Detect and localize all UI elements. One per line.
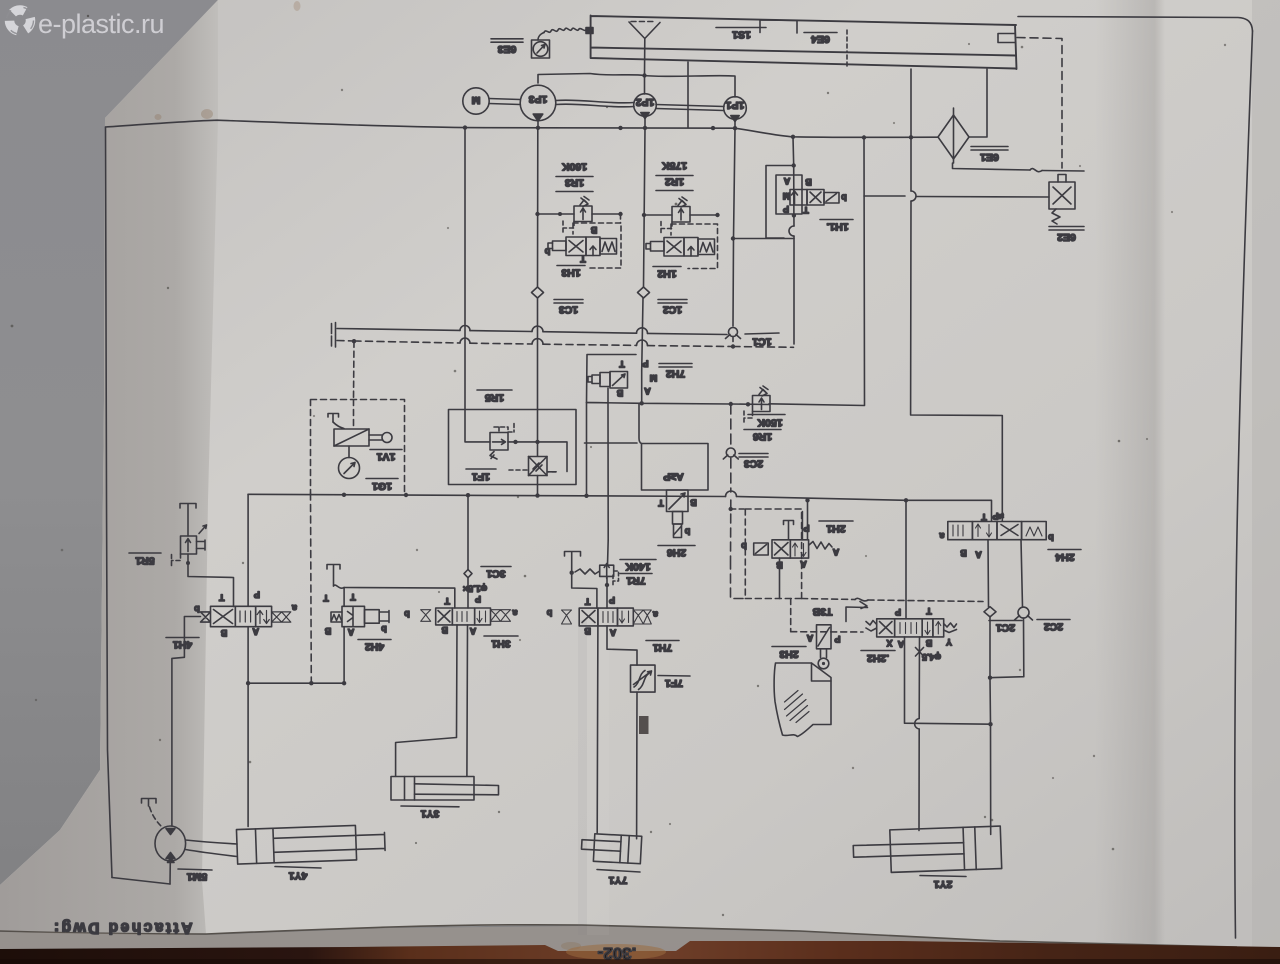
svg-text:b: b [546, 608, 552, 618]
svg-text:7F1: 7F1 [665, 677, 683, 689]
plug left end dashed line [332, 335, 336, 347]
end triangles right [272, 612, 291, 622]
relief valve 1R6 [744, 386, 770, 424]
node rail x468 [466, 493, 470, 497]
bypass loop [766, 166, 794, 239]
breather 6E4 box on tank [760, 20, 797, 33]
svg-text:175K: 175K [662, 160, 688, 172]
svg-text:2C3: 2C3 [744, 458, 763, 470]
label 2C1 [989, 621, 1022, 634]
subtle center-bottom crease [578, 620, 587, 935]
node x607/585 [605, 583, 609, 587]
svg-text:b: b [544, 247, 550, 257]
node x560 [558, 212, 562, 216]
check valve 1C2 [638, 287, 650, 298]
check 3C1 with orifice [463, 570, 487, 594]
label 4H2 [358, 640, 391, 653]
wire 4H1 left loop to 5M1 [172, 617, 201, 826]
wire 1R2 branch [644, 214, 718, 216]
wire 2H4 outputs down [988, 540, 1023, 607]
label 1C1 [745, 333, 779, 348]
svg-text:M: M [783, 191, 791, 201]
wire 3H1 B down and over to 3Y1 [396, 625, 457, 776]
label 7H2 [659, 364, 692, 380]
svg-text:A: A [832, 547, 839, 557]
label 3H1 [484, 636, 518, 650]
node rail x537 [535, 493, 539, 497]
heater coil 6E3 wire into tank [544, 28, 588, 32]
svg-text:B: B [441, 625, 448, 635]
node rail x713 [711, 126, 715, 130]
relief valve 1R3 [563, 197, 592, 235]
wire check junction down to 2Y1 [989, 678, 992, 835]
solenoid 1H1 [824, 193, 839, 204]
node y403 x731 [729, 402, 733, 406]
relief valve 1R2 [661, 197, 690, 235]
wire 1R3 branch [538, 213, 621, 215]
node x733 on dashed [731, 344, 735, 348]
label 7R1 140K [620, 560, 656, 587]
svg-text:P: P [895, 607, 901, 617]
wire 5M1 to 4Y1 ports [186, 840, 237, 857]
wire 4H1 B down to y683 [247, 627, 249, 684]
wire: tank return drop x=688 [687, 62, 689, 128]
wire through 7H2 right ports [641, 371, 643, 403]
svg-text:6E4: 6E4 [811, 33, 830, 45]
node junction 2C1 line [988, 722, 992, 726]
wire x468 down through 3C1 to valve [467, 495, 469, 608]
svg-text:1P3: 1P3 [529, 93, 548, 105]
svg-text:2H3: 2H3 [779, 648, 798, 660]
valve 1H2 (2/2 solenoid NO) [646, 238, 715, 257]
node rail 1H1 [791, 135, 795, 139]
hop x465 [460, 326, 470, 331]
svg-text:1C3: 1C3 [559, 304, 578, 316]
svg-text:T: T [580, 254, 586, 264]
svg-text:B: B [925, 638, 932, 648]
svg-text:X: X [886, 638, 892, 648]
tank plug T above 5R1 [180, 504, 196, 537]
pump 1P3 [520, 85, 556, 121]
svg-text:1C1: 1C1 [752, 336, 771, 348]
node rail x864 [862, 135, 866, 139]
label 1R6 150K [744, 415, 785, 443]
label 5M1 [178, 869, 212, 883]
svg-text:3Y1: 3Y1 [421, 808, 440, 820]
wire: y196 return line [864, 196, 1049, 197]
label 2Y1 [920, 876, 966, 891]
label 2H4 [1048, 550, 1081, 564]
plug left end [332, 323, 336, 335]
svg-text:A: A [806, 633, 813, 643]
node rail x465 [463, 125, 467, 129]
cylinder 7Y1 [581, 833, 642, 864]
wire 2H1 P from rail [807, 500, 809, 540]
wire 5R1 to 4H1 T-loop [188, 554, 234, 607]
svg-text:6E1: 6E1 [980, 151, 999, 163]
svg-text:B: B [960, 548, 967, 558]
relief valve 7R1 [575, 564, 619, 587]
label 1S1 [716, 28, 766, 41]
wire main x607 from 7H2 down [607, 540, 608, 608]
watermark logo [7, 7, 34, 34]
relief valve 1R5 [490, 424, 514, 460]
left frame wire [106, 127, 113, 878]
label 2H6 [658, 546, 695, 559]
wire y238 link [733, 238, 794, 240]
check valve 2C3 [723, 448, 738, 459]
svg-text:3C1: 3C1 [486, 568, 505, 580]
label 6E1 [971, 147, 1008, 164]
frame top right wire [1018, 17, 1253, 32]
node rail 1P3 [536, 126, 540, 130]
valve 2H6 below box [658, 490, 697, 538]
wire x733 from rail to 1C1 [733, 128, 735, 326]
svg-text:T: T [803, 205, 809, 215]
node bottom [792, 213, 796, 217]
svg-text:A: A [469, 626, 476, 636]
svg-text:1V1: 1V1 [377, 451, 396, 463]
label 6E2 [1049, 227, 1084, 244]
pump 1P1 [724, 97, 747, 122]
node y683 x248 [246, 681, 250, 685]
end triangles left (solenoid prop) [201, 612, 211, 622]
svg-text:4Y1: 4Y1 [289, 870, 308, 882]
svg-text:A: A [800, 559, 807, 569]
gauge 1G1 [339, 446, 360, 479]
label 2H3 [772, 647, 806, 661]
svg-text:T: T [350, 592, 356, 602]
svg-text:B: B [616, 388, 623, 398]
svg-text:B: B [590, 225, 597, 235]
valve 7H2 assembly [587, 355, 658, 541]
right edge dimming [1252, 0, 1280, 947]
shaft 1P2-1P1 [656, 105, 724, 111]
wire y587 to 3H1 T [344, 588, 455, 609]
wire rail corner into 4H1 P [247, 494, 249, 606]
svg-text:b: b [741, 541, 747, 551]
svg-text:7H2: 7H2 [666, 368, 685, 380]
svg-text:160K: 160K [562, 161, 588, 173]
node 5R1 wire [186, 561, 190, 565]
svg-text:1H1.: 1H1. [826, 221, 848, 233]
label 3Y1 [401, 806, 459, 820]
svg-text:1P2: 1P2 [636, 96, 655, 108]
bottom fold line [0, 925, 1237, 947]
svg-text:2H1: 2H1 [826, 523, 845, 535]
node 1R2 junction [642, 213, 646, 217]
box A3P [642, 444, 709, 491]
node rail x621 [618, 126, 622, 130]
svg-text:T: T [658, 498, 664, 508]
svg-text:6E2: 6E2 [1057, 231, 1076, 243]
filter 1F1 [529, 457, 548, 476]
node x731/509 [729, 507, 733, 511]
svg-text:6E3: 6E3 [498, 43, 517, 55]
svg-text:A: A [783, 176, 790, 186]
left shadow band on paper [0, 0, 218, 934]
svg-text:1R6: 1R6 [753, 431, 772, 443]
electric motor M [463, 88, 489, 114]
svg-text:A: A [347, 627, 354, 637]
node 7R1 spring junction [570, 571, 574, 575]
tank 1S1/6E4 reservoir [591, 16, 1017, 70]
label 1R3 160K [556, 161, 593, 192]
tank baffle (dashed vertical inside tank) [846, 30, 848, 69]
node x621/214 [618, 212, 622, 216]
label 6E3 [491, 39, 523, 55]
dashed pilot from y341 [353, 341, 356, 429]
wire y403 horizontal [587, 403, 770, 405]
label 1F1 [466, 469, 496, 483]
handle stem and knob [369, 435, 382, 440]
svg-text:B: B [324, 626, 331, 636]
svg-text:b: b [684, 527, 690, 537]
valve 3H1 (4/3 solenoid) [404, 594, 518, 636]
wire x586 from 7H2 to rail [586, 403, 588, 496]
patch behind 302 [566, 944, 666, 960]
filter 6E1 diamond [938, 108, 969, 163]
label 4H1 [166, 638, 199, 651]
svg-text:T: T [584, 597, 590, 607]
node y403 x641 [640, 401, 644, 405]
wire 2C1 down [989, 617, 991, 678]
valve 2H4 (4/2) [939, 511, 1054, 560]
wire: main rail under pumps (wavy) [106, 120, 939, 137]
label 1H1 [820, 220, 853, 233]
wire 4H2 A down [343, 588, 345, 684]
tank plug T drain 5M1 [142, 799, 157, 807]
svg-text:T3B: T3B [812, 606, 832, 618]
svg-text:P: P [834, 634, 840, 644]
tank plug T above 4H2 [327, 565, 340, 587]
svg-text:T: T [219, 593, 225, 603]
valve 7H1 (4/3 solenoid) [546, 595, 658, 638]
wire y683 horizontal [248, 682, 344, 684]
hop x911 over y196 [911, 191, 916, 201]
wire 5M1 to frame bottom [169, 861, 171, 884]
svg-text:T: T [981, 512, 987, 522]
svg-text:b: b [194, 604, 200, 614]
node rail x406 [404, 493, 408, 497]
svg-text:B: B [805, 177, 812, 187]
node x354 on dashed [352, 339, 356, 343]
node rail 2H1 [805, 498, 809, 502]
outer loop 7H2 [587, 355, 637, 541]
svg-text:T: T [926, 606, 932, 616]
svg-text:1F1: 1F1 [472, 471, 490, 483]
svg-text:P: P [609, 595, 615, 605]
wire dashed link to 2H1 box [731, 508, 746, 510]
svg-text:2H6: 2H6 [667, 547, 686, 559]
line break squiggle 4H2 [334, 585, 345, 588]
svg-text:5M1: 5M1 [187, 871, 208, 883]
svg-text:T: T [619, 359, 625, 369]
wire: 6E1 bottom to 6E2 line [953, 163, 1085, 171]
wire: dashed from tank right to 6E2 [1017, 38, 1062, 169]
tank outlet tab right [998, 34, 1015, 43]
svg-text:B: B [220, 628, 227, 638]
svg-text:3H1: 3H1 [491, 638, 510, 650]
label 3C1 [481, 567, 511, 580]
svg-text:A: A [252, 627, 259, 637]
hop B over y723 [915, 719, 920, 730]
svg-text:b: b [404, 609, 410, 619]
dashed box 1V1/1G1 [311, 400, 405, 494]
wire 7H1 B down to 7Y1 [596, 626, 599, 833]
dashed drain to motor [150, 807, 162, 827]
svg-text:e-plastic.ru: e-plastic.ru [38, 9, 164, 39]
hop of vertical over loop bottom [789, 226, 794, 236]
svg-text:1H2: 1H2 [657, 268, 676, 280]
relief valve 5R1 [172, 525, 207, 566]
label 7Y1 [597, 870, 640, 887]
valve 1H1 assembly [766, 137, 847, 344]
wire 1H1 vertical [793, 137, 794, 344]
label 7H1 [646, 641, 679, 654]
svg-text:1G1: 1G1 [372, 480, 392, 492]
motor 5M1 [155, 826, 186, 861]
svg-text:A: A [897, 639, 904, 649]
wire 2C2 down and left [990, 618, 1024, 678]
cylinder 3Y1 [391, 777, 499, 801]
valve 2H2 (pilot operated) [866, 606, 957, 649]
node top [792, 163, 796, 167]
node 2C joint [988, 676, 992, 680]
svg-text:A: A [644, 386, 651, 396]
svg-text:2C2: 2C2 [1044, 621, 1063, 633]
label 1C3 [554, 300, 583, 316]
tank plug T at 7R1 [565, 552, 581, 573]
line break squiggle near 6E2 [1030, 169, 1042, 172]
check valve 2C2 [1015, 607, 1033, 620]
check valve 1C1 [726, 328, 741, 342]
node x515/442 [513, 440, 517, 444]
label 4Y1 [275, 867, 321, 882]
valve 1V1 shutoff with gauge [311, 341, 405, 493]
soft crease at x~1130 [1095, 0, 1165, 947]
svg-text:P: P [254, 589, 260, 599]
box 1R5 subplate [449, 410, 577, 485]
wire 7R1 T-loop into 7H1 [572, 573, 597, 608]
valve 4H2 (2/2 solenoid) [323, 592, 389, 637]
wire: rail y495 [248, 494, 991, 521]
svg-text:B: B [690, 498, 697, 508]
label 1G1 [366, 479, 398, 493]
thermometer 6E3 [532, 40, 550, 58]
svg-text:7Y1: 7Y1 [609, 874, 628, 886]
dashed links to 1F1 [509, 470, 556, 472]
wire: column x644 (1P2 circuit) [642, 128, 645, 371]
T3B corner [812, 602, 867, 622]
wire 7H1 A to 7F1 [607, 626, 637, 665]
label 2H1 [819, 521, 853, 535]
node x537/442 [535, 440, 539, 444]
pump 1P2 [634, 94, 657, 119]
svg-text:1R5: 1R5 [485, 392, 504, 404]
node y238 [731, 236, 735, 240]
node rail 1P2 [643, 126, 647, 130]
node rail x911 [909, 135, 913, 139]
wire y443 link [585, 442, 638, 444]
valve body [334, 429, 369, 446]
dashed enclosure 1H3 [573, 223, 621, 268]
cylinder 4Y1 [236, 824, 385, 864]
label 1C2 [658, 300, 687, 316]
wire 1R5 outlet [508, 442, 567, 472]
label 2C3 [739, 454, 768, 470]
node x717/215 [715, 213, 719, 217]
wire 2H1 B down [779, 558, 781, 598]
svg-text:φ4.5: φ4.5 [922, 652, 941, 662]
wire 2H2 A down to junction [905, 637, 991, 724]
node rail x906 [904, 498, 908, 502]
wire pilot x802 [801, 512, 803, 540]
squiggle on pilot line [855, 598, 868, 601]
svg-text:140K: 140K [625, 561, 651, 573]
svg-text:φ1.5×: φ1.5× [463, 584, 487, 594]
svg-text:≠P: ≠P [993, 511, 1004, 521]
stains [155, 1, 582, 950]
svg-text:b: b [841, 193, 847, 203]
svg-text:B: B [584, 626, 591, 636]
svg-text:T: T [444, 596, 450, 606]
svg-text:M: M [650, 373, 658, 383]
wire: solid pressure line y330 [337, 329, 727, 335]
svg-text:1C2: 1C2 [663, 304, 682, 316]
label 2C2 [1037, 620, 1070, 633]
svg-text:A: A [609, 628, 616, 638]
valve 1H3 (2/2 solenoid) [548, 237, 617, 256]
wire dashed x621 down [620, 214, 622, 223]
wire: pump outlet drops to rail [538, 119, 735, 129]
dashed pilot to 2H2 left [791, 599, 863, 633]
dashed pilot line y599 right [802, 599, 983, 602]
svg-text:A≥P: A≥P [663, 471, 683, 483]
wire: column x537.5 (1P3 circuit) [537, 128, 539, 495]
svg-text:150K: 150K [757, 417, 783, 429]
svg-text:P: P [475, 594, 481, 604]
svg-text:.2H2: .2H2 [867, 652, 889, 664]
svg-text:P: P [783, 204, 789, 214]
label 7F1 [658, 676, 690, 690]
shaft M-1P3 [489, 99, 520, 105]
shaft 1P3-1P2 [556, 100, 634, 107]
node y403 x748 [746, 402, 750, 406]
wire: tank right to filter 6E1 [969, 69, 987, 137]
label 1H2 [653, 267, 681, 280]
dashed enclosure 2H1 [745, 509, 801, 599]
svg-text:1H3: 1H3 [561, 267, 580, 279]
label 1H3 [557, 266, 585, 279]
svg-text:7R1: 7R1 [626, 575, 645, 587]
shadow sliver above strip [0, 926, 1280, 952]
svg-text:2Y1: 2Y1 [934, 878, 953, 890]
frame right wire [1235, 31, 1253, 938]
svg-text:b: b [1048, 533, 1054, 543]
svg-text:4H2: 4H2 [365, 641, 384, 653]
wire: tank drain x911 down and over to 2H4 T [911, 69, 1003, 521]
svg-text:A: A [975, 550, 982, 560]
svg-text:2C1: 2C1 [996, 622, 1015, 634]
orifice φ4.5 on B line [916, 648, 941, 663]
hop rail over x731 [726, 491, 737, 497]
wire 2H2 B down through orifice [918, 637, 921, 831]
wire 4H1 B line to 4Y1 [247, 683, 249, 826]
wire x731 below rail dashed [731, 500, 746, 599]
arrow into motor bottom [168, 858, 175, 863]
strainer 1S1 (inverted triangle in tank) [629, 22, 660, 39]
